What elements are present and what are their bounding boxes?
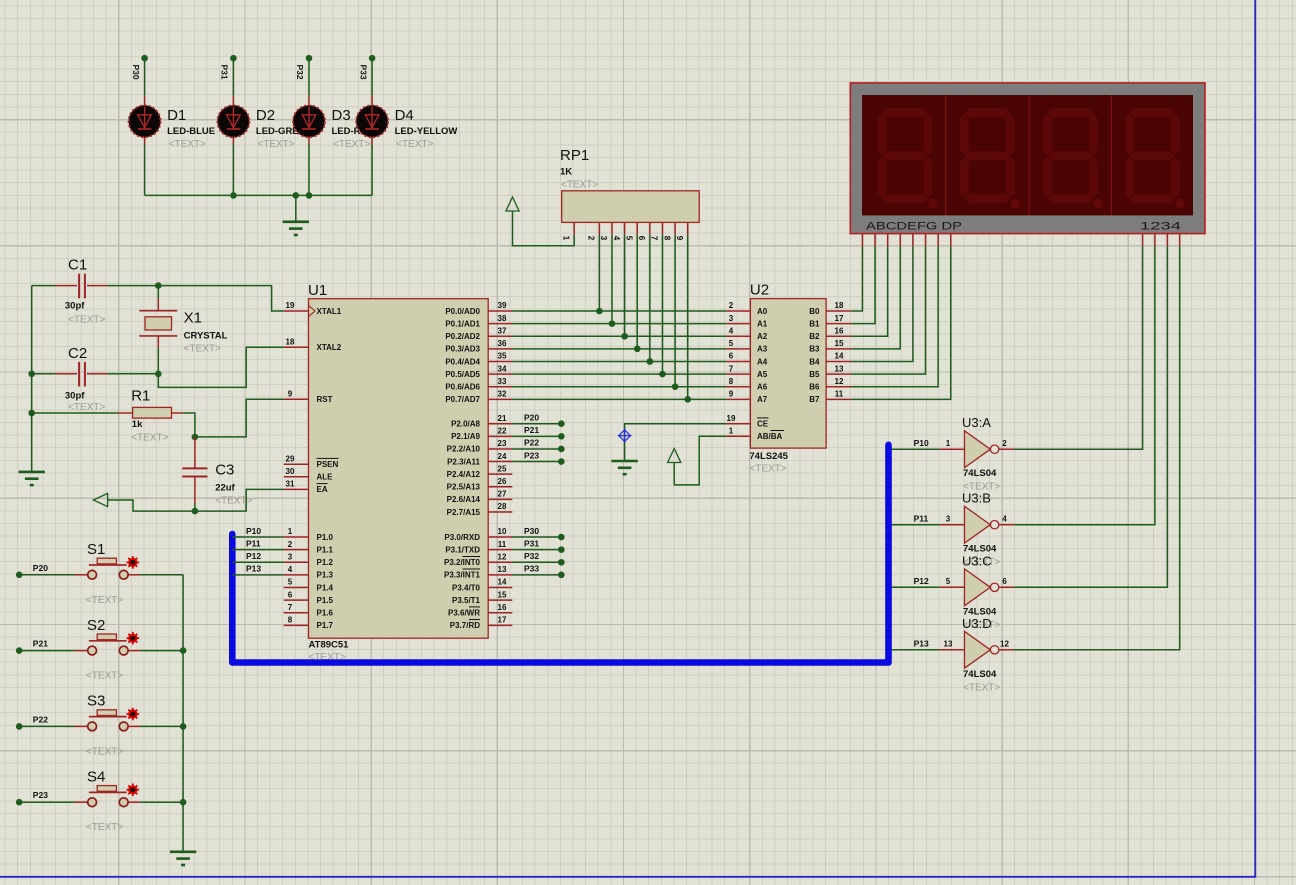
wire P0.3 from U1 to U2 bbox=[512, 348, 726, 350]
U1 pin EA bbox=[284, 488, 309, 490]
wire S4 to common bbox=[140, 801, 183, 803]
microcontroller U1 AT89C51 body bbox=[309, 299, 489, 639]
U2 pin B2 bbox=[826, 335, 851, 337]
display digit pin 2 stub bbox=[1154, 234, 1156, 247]
junction RP1/P0.1 bbox=[609, 320, 616, 327]
U1 pin XTAL1 bbox=[284, 310, 309, 312]
resistor R1 bbox=[32, 407, 183, 418]
svg-text:12: 12 bbox=[498, 552, 507, 561]
U2 pin A1 bbox=[726, 323, 750, 325]
U2 pin A5 bbox=[726, 373, 750, 375]
wire net P33 from U1 P3.3 bbox=[512, 572, 564, 579]
svg-text:P0.1/AD1: P0.1/AD1 bbox=[445, 319, 480, 328]
svg-text:P3.4/T0: P3.4/T0 bbox=[452, 583, 481, 592]
svg-text:23: 23 bbox=[498, 439, 507, 448]
svg-text:B2: B2 bbox=[809, 332, 820, 341]
wire net P22 to S3 bbox=[16, 723, 75, 730]
svg-text:A0: A0 bbox=[757, 307, 768, 316]
RP1 pin 1 stub bbox=[573, 222, 575, 234]
svg-text:25: 25 bbox=[498, 464, 507, 473]
U2 pin AB/BA bbox=[726, 435, 750, 437]
svg-text:B3: B3 bbox=[809, 345, 820, 354]
svg-text:D1: D1 bbox=[167, 107, 186, 124]
svg-text:1: 1 bbox=[561, 236, 570, 241]
svg-text:C3: C3 bbox=[215, 462, 234, 479]
U1 pin P3.2 bbox=[488, 561, 512, 563]
display digit 1 bbox=[878, 108, 938, 208]
svg-text:RST: RST bbox=[317, 395, 333, 404]
svg-text:22: 22 bbox=[498, 427, 507, 436]
RP1 pin 8 stub bbox=[674, 222, 676, 234]
svg-text:P0.7/AD7: P0.7/AD7 bbox=[445, 395, 480, 404]
U1 pin P2.6 bbox=[488, 498, 512, 500]
svg-text:1234: 1234 bbox=[1140, 221, 1181, 233]
svg-text:D4: D4 bbox=[395, 107, 414, 124]
buffer U2 74LS245 body bbox=[750, 299, 826, 449]
svg-text:P10: P10 bbox=[914, 438, 929, 448]
display segment pin A stub bbox=[861, 234, 863, 247]
power arrow VCC for RP1 bbox=[506, 197, 519, 211]
svg-text:P1.2: P1.2 bbox=[317, 558, 334, 567]
wire U3:A output to display digit 1 bbox=[1014, 246, 1143, 449]
wire net P32 to D3 anode bbox=[306, 55, 313, 96]
svg-text:P30: P30 bbox=[524, 526, 539, 536]
svg-text:A6: A6 bbox=[757, 383, 768, 392]
svg-text:17: 17 bbox=[835, 314, 844, 323]
svg-text:AT89C51: AT89C51 bbox=[309, 640, 350, 651]
svg-text:28: 28 bbox=[498, 502, 507, 511]
wire RP1 pin 5 drop to P0.3 bbox=[636, 235, 638, 349]
svg-text:33: 33 bbox=[498, 377, 507, 386]
U2 pin A4 bbox=[726, 360, 750, 362]
svg-text:P12: P12 bbox=[914, 576, 929, 586]
svg-text:15: 15 bbox=[835, 339, 844, 348]
svg-text:CE: CE bbox=[757, 420, 769, 429]
svg-text:P1.0: P1.0 bbox=[317, 533, 334, 542]
svg-text:21: 21 bbox=[498, 414, 507, 423]
svg-text:P11: P11 bbox=[914, 514, 929, 524]
U1 pin names left bbox=[317, 307, 342, 630]
switch S1 bbox=[75, 558, 141, 579]
net label P31 bbox=[220, 65, 230, 80]
svg-text:P2.6/A14: P2.6/A14 bbox=[447, 495, 481, 504]
junction rail/C2 bbox=[28, 371, 35, 378]
svg-text:4: 4 bbox=[288, 565, 293, 574]
svg-text:S2: S2 bbox=[87, 617, 105, 634]
svg-text:8: 8 bbox=[662, 236, 671, 241]
display digit separators bbox=[946, 95, 1112, 215]
U2 pin B4 bbox=[826, 360, 851, 362]
RP1 pin 6 stub bbox=[649, 222, 651, 234]
svg-text:B1: B1 bbox=[809, 319, 820, 328]
svg-text:38: 38 bbox=[498, 314, 507, 323]
junction C3 bottom bbox=[192, 508, 199, 515]
wire RP1 pin 7 drop to P0.5 bbox=[662, 235, 664, 375]
wire U2 B5 to display segment F bbox=[851, 246, 925, 374]
wire U2 B6 to display segment G bbox=[851, 246, 938, 386]
wire P0.0 from U1 to U2 bbox=[512, 310, 726, 312]
svg-text:7: 7 bbox=[650, 236, 659, 241]
ground CE bbox=[611, 461, 637, 474]
RP1 pin number 4 bbox=[612, 236, 621, 241]
svg-text:P22: P22 bbox=[524, 438, 539, 448]
svg-text:P33: P33 bbox=[358, 65, 368, 80]
svg-text:P13: P13 bbox=[914, 639, 929, 649]
svg-text:9: 9 bbox=[675, 236, 684, 241]
RP1 pin number 2 bbox=[587, 236, 596, 241]
wire RP1 pin 8 drop to P0.6 bbox=[674, 235, 676, 387]
svg-text:C1: C1 bbox=[68, 257, 87, 274]
svg-text:<TEXT>: <TEXT> bbox=[86, 746, 123, 757]
wire LED common rail bbox=[145, 194, 373, 196]
svg-text:6: 6 bbox=[288, 590, 293, 599]
wire switch common down to ground bbox=[182, 575, 184, 852]
U1 pin P2.7 bbox=[488, 511, 512, 513]
svg-text:P3.5/T1: P3.5/T1 bbox=[452, 596, 481, 605]
svg-text:39: 39 bbox=[498, 301, 507, 310]
svg-text:P1.3: P1.3 bbox=[317, 571, 334, 580]
svg-text:13: 13 bbox=[498, 565, 507, 574]
svg-text:<TEXT>: <TEXT> bbox=[215, 496, 252, 507]
svg-text:5: 5 bbox=[288, 578, 293, 587]
display segment pin C stub bbox=[887, 234, 889, 247]
U1 pin P1.2 bbox=[284, 561, 309, 563]
U1 pin P2.1 bbox=[488, 435, 512, 437]
RP1 pin number 9 bbox=[675, 236, 684, 241]
RP1 pin 9 stub bbox=[687, 222, 689, 234]
wire D1 cathode down bbox=[144, 145, 146, 196]
svg-text:A4: A4 bbox=[757, 357, 768, 366]
wire bus to U1 P1.2 bbox=[232, 561, 283, 563]
wire net P20 from U1 P2.0 bbox=[512, 420, 564, 427]
svg-text:<TEXT>: <TEXT> bbox=[396, 139, 433, 150]
U2 pin B6 bbox=[826, 386, 851, 388]
svg-text:XTAL1: XTAL1 bbox=[317, 307, 342, 316]
svg-text:19: 19 bbox=[727, 414, 736, 423]
junction RP1/P0.7 bbox=[684, 396, 691, 403]
svg-text:1: 1 bbox=[729, 427, 734, 436]
svg-text:6: 6 bbox=[729, 352, 734, 361]
svg-text:A7: A7 bbox=[757, 395, 768, 404]
wire net P21 from U1 P2.1 bbox=[512, 433, 564, 440]
svg-text:2: 2 bbox=[729, 301, 734, 310]
wire U2 B0 to display segment A bbox=[851, 246, 862, 311]
svg-text:A3: A3 bbox=[757, 345, 768, 354]
U2 pin names bbox=[757, 307, 820, 441]
RP1 pin number 7 bbox=[650, 236, 659, 241]
svg-text:P33: P33 bbox=[524, 564, 539, 574]
svg-text:CRYSTAL: CRYSTAL bbox=[184, 331, 228, 342]
U1 pin P1.4 bbox=[284, 586, 309, 588]
svg-text:B5: B5 bbox=[809, 370, 820, 379]
svg-text:4: 4 bbox=[612, 236, 621, 241]
svg-text:PSEN: PSEN bbox=[317, 460, 339, 469]
U1 pin P2.5 bbox=[488, 486, 512, 488]
display segment pin E stub bbox=[912, 234, 914, 247]
switch S2 bbox=[75, 634, 141, 655]
resistor pack RP1 body bbox=[562, 191, 700, 223]
wire P0.2 from U1 to U2 bbox=[512, 335, 726, 337]
U1 pin P3.4 bbox=[488, 586, 512, 588]
svg-text:6: 6 bbox=[1002, 577, 1007, 586]
svg-text:2: 2 bbox=[288, 540, 293, 549]
RP1 pin number 5 bbox=[624, 236, 633, 241]
svg-text:P0.6/AD6: P0.6/AD6 bbox=[445, 383, 480, 392]
svg-text:P2.2/A10: P2.2/A10 bbox=[447, 445, 481, 454]
svg-text:15: 15 bbox=[498, 590, 507, 599]
svg-text:3: 3 bbox=[946, 515, 951, 524]
wire S1 to common bbox=[140, 574, 183, 576]
display segment pin B stub bbox=[874, 234, 876, 247]
LED D4 LED-YELLOW bbox=[356, 96, 388, 145]
wire P0.6 from U1 to U2 bbox=[512, 386, 726, 388]
switch S3 bbox=[75, 710, 141, 731]
RP1 pin 5 stub bbox=[636, 222, 638, 234]
svg-text:P30: P30 bbox=[131, 65, 141, 80]
wire junction to RST bbox=[195, 399, 284, 437]
wire S2 to common bbox=[140, 650, 183, 652]
wire U2 AB/BA to power arrow bbox=[674, 436, 726, 485]
svg-text:27: 27 bbox=[498, 490, 507, 499]
junction C2/X1 bottom bbox=[155, 371, 162, 378]
wire D3 cathode down bbox=[308, 145, 310, 196]
svg-text:4: 4 bbox=[729, 326, 734, 335]
capacitor C2 bbox=[32, 362, 159, 387]
svg-text:B7: B7 bbox=[809, 395, 820, 404]
wire S3 to common bbox=[140, 725, 183, 727]
svg-text:31: 31 bbox=[286, 480, 295, 489]
svg-text:P10: P10 bbox=[246, 526, 261, 536]
svg-text:P1.5: P1.5 bbox=[317, 596, 334, 605]
display panel bbox=[862, 95, 1193, 215]
wire U2 B2 to display segment C bbox=[851, 246, 887, 336]
RP1 pin 7 stub bbox=[662, 222, 664, 234]
wire U2 B4 to display segment E bbox=[851, 246, 913, 361]
display segment pin D stub bbox=[899, 234, 901, 247]
U1 pin P0.7 bbox=[488, 398, 512, 400]
wire bus to U1 P1.0 bbox=[232, 536, 283, 538]
svg-text:P2.0/A8: P2.0/A8 bbox=[451, 420, 480, 429]
svg-text:18: 18 bbox=[835, 301, 844, 310]
junction RP1/P0.6 bbox=[672, 383, 679, 390]
svg-text:B0: B0 bbox=[809, 307, 820, 316]
svg-text:<TEXT>: <TEXT> bbox=[68, 315, 105, 326]
U1 pin P0.6 bbox=[488, 386, 512, 388]
svg-text:<TEXT>: <TEXT> bbox=[86, 671, 123, 682]
junction LED rail D2 bbox=[230, 192, 237, 199]
ground left rail bbox=[19, 472, 45, 485]
wire net P31 from U1 P3.1 bbox=[512, 546, 564, 553]
svg-text:P13: P13 bbox=[246, 564, 261, 574]
display 4-digit 7-segment bezel bbox=[850, 83, 1205, 234]
svg-text:1: 1 bbox=[946, 439, 951, 448]
wire net P31 to D2 anode bbox=[230, 55, 237, 96]
svg-text:P3.7/RD: P3.7/RD bbox=[450, 621, 480, 630]
U1 pin P0.1 bbox=[488, 323, 512, 325]
display digit pin 4 stub bbox=[1179, 234, 1181, 247]
net label P33 bbox=[358, 65, 368, 80]
wire U3:D output to display digit 4 bbox=[1014, 246, 1180, 649]
svg-text:7: 7 bbox=[729, 364, 734, 373]
svg-text:P1.1: P1.1 bbox=[317, 545, 334, 554]
svg-text:U3:A: U3:A bbox=[962, 415, 991, 430]
svg-text:A5: A5 bbox=[757, 370, 768, 379]
junction rail/R1 bbox=[28, 410, 35, 417]
svg-text:<TEXT>: <TEXT> bbox=[68, 402, 105, 413]
svg-text:P32: P32 bbox=[524, 551, 539, 561]
wire RP1 pin 4 drop to P0.2 bbox=[624, 235, 626, 337]
svg-text:5: 5 bbox=[946, 577, 951, 586]
crystal X1 bbox=[139, 286, 177, 374]
svg-text:3: 3 bbox=[288, 552, 293, 561]
U1 pin names right bbox=[444, 307, 481, 630]
LED D3 LED-RED bbox=[293, 96, 325, 145]
svg-text:P0.3/AD3: P0.3/AD3 bbox=[445, 345, 480, 354]
svg-text:ALE: ALE bbox=[317, 473, 334, 482]
svg-text:P20: P20 bbox=[33, 563, 48, 573]
inverter U3:C 74LS04 bbox=[939, 569, 1014, 606]
svg-text:37: 37 bbox=[498, 326, 507, 335]
svg-text:8: 8 bbox=[288, 616, 293, 625]
wire bus to U3:A input bbox=[889, 448, 940, 450]
svg-text:P21: P21 bbox=[524, 425, 539, 435]
svg-text:C2: C2 bbox=[68, 345, 87, 362]
RP1 pin 4 stub bbox=[624, 222, 626, 234]
U1 pin P2.0 bbox=[488, 423, 512, 425]
svg-text:<TEXT>: <TEXT> bbox=[749, 464, 786, 475]
RP1 pin number 1 bbox=[561, 236, 570, 241]
capacitor C3 bbox=[182, 437, 207, 511]
svg-text:P2.5/A13: P2.5/A13 bbox=[447, 483, 481, 492]
RP1 pin number 8 bbox=[662, 236, 671, 241]
display segment pin G stub bbox=[937, 234, 939, 247]
U1 pin P3.5 bbox=[488, 599, 512, 601]
svg-text:11: 11 bbox=[835, 390, 844, 399]
wire RP1 pin 3 drop to P0.1 bbox=[611, 235, 613, 324]
bus wire (blue) bbox=[232, 445, 888, 663]
svg-text:14: 14 bbox=[498, 578, 507, 587]
svg-text:<TEXT>: <TEXT> bbox=[184, 344, 221, 355]
svg-text:9: 9 bbox=[288, 390, 293, 399]
wire U2 B1 to display segment B bbox=[851, 246, 875, 323]
wire P0.5 from U1 to U2 bbox=[512, 373, 726, 375]
U2 pin B1 bbox=[826, 323, 851, 325]
svg-text:5: 5 bbox=[624, 236, 633, 241]
RP1 pin number 6 bbox=[637, 236, 646, 241]
wire net P30 from U1 P3.0 bbox=[512, 534, 564, 541]
junction LED rail D3 bbox=[306, 192, 313, 199]
junction switch common bbox=[180, 723, 187, 730]
inverter U3:B 74LS04 bbox=[939, 506, 1014, 543]
svg-text:1K: 1K bbox=[560, 167, 572, 178]
junction RP1/P0.5 bbox=[659, 371, 666, 378]
wire net P30 to D1 anode bbox=[141, 55, 148, 96]
RP1 pin 2 stub bbox=[598, 222, 600, 234]
LED D1 LED-BLUE bbox=[129, 96, 161, 145]
U2 pin B0 bbox=[826, 310, 851, 312]
svg-text:B4: B4 bbox=[809, 357, 820, 366]
svg-text:1k: 1k bbox=[132, 419, 143, 430]
U1 pin P0.3 bbox=[488, 348, 512, 350]
svg-text:<TEXT>: <TEXT> bbox=[131, 433, 168, 444]
display digit pin 3 stub bbox=[1166, 234, 1168, 247]
svg-text:22uf: 22uf bbox=[215, 483, 235, 494]
U1 pin P3.6 bbox=[488, 612, 512, 614]
svg-text:5: 5 bbox=[729, 339, 734, 348]
wire C1 to XTAL1 bbox=[108, 286, 284, 311]
svg-text:13: 13 bbox=[835, 364, 844, 373]
wire R1 to RST / C3 bbox=[183, 413, 195, 437]
U1 pin P0.4 bbox=[488, 360, 512, 362]
svg-text:R1: R1 bbox=[131, 388, 150, 405]
wire P0.7 from U1 to U2 bbox=[512, 398, 726, 400]
wire net P32 from U1 P3.2 bbox=[512, 559, 564, 566]
ground switches bbox=[170, 852, 196, 865]
display digit 2 bbox=[960, 108, 1020, 208]
svg-text:P22: P22 bbox=[33, 714, 48, 724]
wire net P20 to S1 bbox=[16, 572, 75, 579]
power arrow for U2 AB/BA bbox=[668, 449, 681, 463]
svg-text:A2: A2 bbox=[757, 332, 768, 341]
svg-text:<TEXT>: <TEXT> bbox=[963, 682, 1000, 693]
U2 pin B7 bbox=[826, 398, 851, 400]
svg-text:P12: P12 bbox=[246, 551, 261, 561]
svg-text:35: 35 bbox=[498, 352, 507, 361]
wire net P23 to S4 bbox=[16, 799, 75, 806]
U2 pin B5 bbox=[826, 373, 851, 375]
switch S3 actuator bbox=[127, 708, 140, 721]
svg-text:3: 3 bbox=[599, 236, 608, 241]
node marker (origin) on CE net bbox=[618, 429, 632, 443]
ground LED rail bbox=[283, 222, 309, 235]
svg-text:P3.0/RXD: P3.0/RXD bbox=[444, 533, 480, 542]
U1 pin P1.3 bbox=[284, 574, 309, 576]
svg-text:P1.6: P1.6 bbox=[317, 609, 334, 618]
svg-text:2: 2 bbox=[587, 236, 596, 241]
wire U3:C output to display digit 3 bbox=[1014, 246, 1168, 587]
switch S4 actuator bbox=[127, 784, 140, 797]
U1 pin P0.5 bbox=[488, 373, 512, 375]
svg-text:74LS04: 74LS04 bbox=[963, 669, 997, 680]
junction LED rail ground tap bbox=[293, 192, 300, 199]
switch S1 actuator bbox=[127, 556, 140, 569]
U1 pin P1.1 bbox=[284, 549, 309, 551]
display segment letters bbox=[866, 221, 962, 233]
svg-text:74LS245: 74LS245 bbox=[749, 451, 788, 462]
svg-text:26: 26 bbox=[498, 477, 507, 486]
svg-text:P31: P31 bbox=[524, 538, 539, 548]
wire bus to U1 P1.3 bbox=[232, 574, 283, 576]
wire net P33 to D4 anode bbox=[369, 55, 376, 96]
svg-text:19: 19 bbox=[286, 301, 295, 310]
svg-text:16: 16 bbox=[835, 326, 844, 335]
U1 pin P1.7 bbox=[284, 624, 309, 626]
U2 pin A6 bbox=[726, 386, 750, 388]
U1 pin ALE bbox=[284, 476, 309, 478]
svg-text:10: 10 bbox=[498, 527, 507, 536]
wire U2 CE to ground bbox=[625, 424, 727, 461]
wire net P23 from U1 P2.3 bbox=[512, 458, 564, 465]
LED D2 LED-GREEN bbox=[217, 96, 249, 145]
wire X1 bottom to XTAL2 bbox=[158, 347, 283, 387]
power arrow (left) for EA net bbox=[93, 493, 107, 506]
svg-text:P2.7/A15: P2.7/A15 bbox=[447, 508, 481, 517]
switch S2 actuator bbox=[127, 632, 140, 645]
U1 pin PSEN bbox=[284, 463, 309, 465]
junction RP1/P0.0 bbox=[596, 308, 603, 315]
junction RP1/P0.4 bbox=[647, 358, 654, 365]
junction R1/C3/RST bbox=[192, 434, 199, 441]
